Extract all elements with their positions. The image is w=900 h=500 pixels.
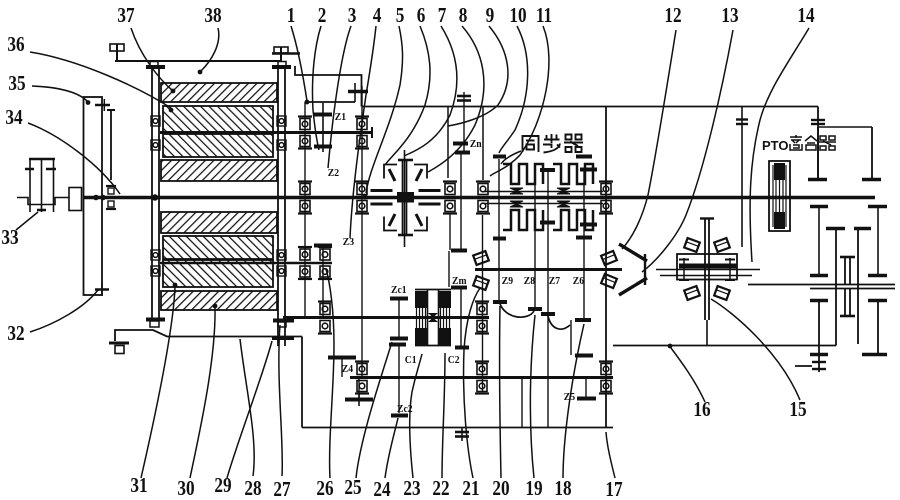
svg-text:16: 16 [693,399,711,422]
svg-text:17: 17 [605,479,623,500]
svg-text:31: 31 [130,475,147,498]
svg-text:4: 4 [373,5,382,28]
svg-text:8: 8 [459,5,468,28]
svg-text:26: 26 [316,478,334,500]
svg-text:12: 12 [664,5,681,28]
svg-text:34: 34 [5,107,23,130]
svg-text:Z3: Z3 [343,237,354,249]
svg-text:32: 32 [7,323,24,346]
svg-text:9: 9 [486,5,495,28]
svg-text:22: 22 [432,478,449,500]
svg-text:Z2: Z2 [328,168,339,180]
svg-text:3: 3 [348,5,357,28]
svg-text:C1: C1 [405,355,417,367]
svg-text:PTO: PTO [762,138,789,153]
svg-text:Zn: Zn [470,139,482,151]
svg-text:11: 11 [536,5,552,28]
svg-text:10: 10 [509,5,526,28]
svg-text:13: 13 [721,5,738,28]
svg-text:14: 14 [797,5,815,28]
svg-text:19: 19 [525,478,542,500]
svg-text:1: 1 [287,5,296,28]
svg-text:24: 24 [373,479,391,500]
svg-text:15: 15 [789,399,806,422]
svg-text:27: 27 [273,479,291,500]
svg-text:Z6: Z6 [573,276,584,288]
svg-text:Z8: Z8 [524,276,535,288]
svg-text:Z1: Z1 [335,112,346,124]
svg-text:33: 33 [1,227,18,250]
svg-text:36: 36 [7,34,25,57]
svg-text:25: 25 [344,477,361,500]
svg-text:C2: C2 [448,355,460,367]
svg-text:29: 29 [214,475,231,498]
svg-text:20: 20 [492,478,509,500]
svg-text:38: 38 [204,5,221,28]
svg-text:7: 7 [438,5,447,28]
svg-text:21: 21 [462,478,479,500]
svg-text:Zm: Zm [452,276,467,288]
svg-text:Z4: Z4 [342,364,353,376]
svg-text:6: 6 [417,5,426,28]
svg-text:18: 18 [554,478,571,500]
svg-text:30: 30 [177,478,194,500]
svg-text:2: 2 [318,5,327,28]
svg-text:37: 37 [117,5,135,28]
svg-text:Z7: Z7 [549,276,560,288]
svg-text:Z5: Z5 [564,392,575,404]
svg-text:Zc1: Zc1 [391,285,407,297]
svg-text:28: 28 [244,478,261,500]
svg-text:5: 5 [396,5,405,28]
svg-text:Z9: Z9 [502,276,513,288]
svg-text:Zc2: Zc2 [397,404,413,416]
svg-text:35: 35 [8,73,25,96]
svg-text:23: 23 [403,478,420,500]
